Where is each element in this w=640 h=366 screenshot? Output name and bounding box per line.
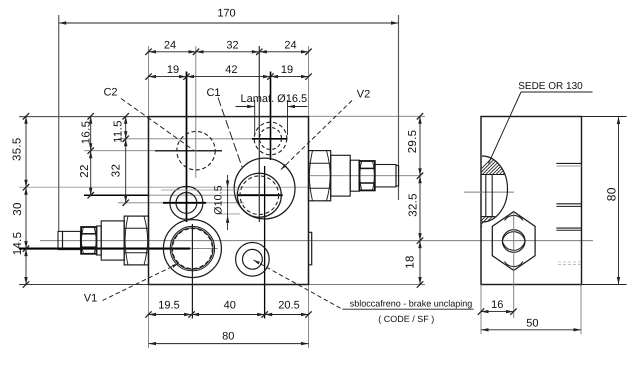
port C1 thread dashed circle: [240, 176, 279, 215]
centerline V2 cartridge y175: [309, 175, 420, 177]
dimension lamature line right: [288, 106, 308, 108]
svg-text:32: 32: [226, 40, 238, 52]
port V1 inner circle: [172, 228, 213, 269]
svg-text:11.5: 11.5: [113, 120, 125, 143]
hex chamfer dome bottom: [502, 241, 525, 250]
svg-text:24: 24: [284, 40, 296, 52]
svg-text:V2: V2: [357, 89, 370, 101]
small hex chamfer right: [94, 227, 96, 254]
right fitting big hex: [309, 151, 331, 201]
port B hole circle: [176, 193, 197, 214]
svg-text:16.5: 16.5: [81, 121, 93, 145]
svg-text:Lamat. Ø16.5: Lamat. Ø16.5: [241, 93, 308, 105]
svg-text:170: 170: [217, 8, 235, 20]
seat groove top line: [482, 174, 505, 176]
extension lamature left: [254, 100, 256, 135]
dimension row 19-42-19: [149, 76, 309, 78]
extension line top-right: [309, 115, 426, 117]
extension side left down: [480, 285, 482, 335]
dimension 16 line: [481, 311, 514, 313]
leader C1: [218, 98, 242, 168]
centerline C2 dark arm: [155, 150, 222, 152]
dimension chain 35.5-30-14.5: [25, 116, 27, 284]
hex plug inner circle: [502, 230, 525, 253]
port V1 outer circle: [163, 220, 221, 278]
groove wall line: [485, 175, 487, 217]
port V2 counterbore dashed circle: [254, 122, 287, 155]
svg-text:19: 19: [167, 64, 179, 76]
centerline port B horizontal: [118, 202, 163, 204]
right fitting washer body: [331, 155, 351, 196]
seat groove bottom line: [482, 216, 496, 218]
centerline C1 vertical: [264, 166, 266, 319]
leader V1: [103, 264, 179, 301]
port B counterbore circle: [170, 186, 203, 219]
port depth line 1: [556, 162, 581, 164]
port C2 dashed circle: [177, 132, 215, 170]
svg-text:14.5: 14.5: [12, 232, 24, 256]
leader underline SEDE OR: [521, 91, 593, 93]
right big hex chamfer right: [327, 151, 331, 201]
left fitting washer body: [101, 221, 124, 260]
hex plug side view: [492, 212, 535, 271]
cavity large circle: [234, 158, 295, 219]
extension diameter 10.5 bottom: [218, 213, 240, 215]
port depth line 3: [556, 227, 581, 229]
centerline V1 dark arm: [19, 248, 190, 250]
svg-text:C2: C2: [103, 87, 117, 99]
svg-text:( CODE / SF ): ( CODE / SF ): [378, 314, 434, 324]
svg-text:80: 80: [222, 331, 234, 343]
svg-text:19.5: 19.5: [158, 300, 179, 312]
port depth hidden line: [558, 261, 581, 263]
extension 80 bottom: [582, 284, 627, 286]
centerline C2 vertical: [195, 46, 197, 178]
dimension chain 29.5-32.5-18: [419, 116, 421, 284]
big hex chamfer arc right: [144, 216, 148, 265]
svg-text:SEDE OR 130: SEDE OR 130: [518, 81, 583, 92]
leader SEDE OR diagonal: [489, 92, 522, 164]
left fitting end cap: [58, 231, 63, 249]
side view block outline: [481, 117, 582, 285]
port V1 thread dashed circle: [173, 229, 213, 269]
right fitting neck: [350, 160, 359, 191]
svg-text:19: 19: [281, 64, 293, 76]
port C1 outer circle: [237, 173, 281, 217]
svg-text:V1: V1: [84, 293, 97, 305]
right small hex chamfer r: [372, 161, 374, 190]
dimension 50 line: [481, 329, 581, 331]
side view seat arc: [482, 156, 508, 222]
extension left edge up: [148, 46, 150, 116]
svg-text:40: 40: [224, 300, 236, 312]
centerline V1 gray: [190, 248, 218, 250]
extension 80 top: [582, 116, 627, 118]
dimension row 19.5-40-20.5: [149, 314, 309, 316]
svg-text:22: 22: [79, 164, 91, 177]
centerline port B dark arm: [163, 202, 206, 204]
left fitting small hex: [81, 227, 96, 254]
centerline V2 vertical: [270, 72, 272, 161]
svg-text:29.5: 29.5: [407, 130, 419, 154]
dimension chain 16.5-22: [90, 116, 92, 195]
hex vertex chamfer top: [505, 215, 524, 220]
main horizontal centerline y240: [40, 240, 593, 242]
leader C2: [121, 99, 194, 151]
left fitting neck: [97, 226, 102, 255]
right big hex chamfer left: [309, 151, 312, 201]
vertical line x259: [258, 46, 260, 222]
port V2 hole dashed circle: [260, 128, 282, 150]
centerline port B vertical: [186, 72, 188, 223]
dimension 80 line: [149, 343, 309, 345]
leader underline brake release: [342, 308, 473, 310]
svg-text:32.5: 32.5: [408, 193, 420, 217]
extension lamature right: [287, 100, 289, 135]
centerline C1 dark arm: [237, 194, 283, 196]
dimension 170 line: [59, 22, 399, 24]
centerline V2 dark arm: [252, 138, 288, 140]
left fitting stem cylinder: [63, 231, 81, 249]
hex vertex chamfer bottom: [505, 262, 524, 267]
extension right edge down: [308, 285, 310, 349]
dimension diameter 10.5 line: [227, 175, 229, 230]
port S hole circle: [243, 249, 263, 269]
dimension row 24-32-24: [149, 51, 309, 53]
svg-text:32: 32: [111, 164, 123, 177]
hex plug vertical centerline: [513, 212, 515, 318]
svg-text:20.5: 20.5: [278, 300, 299, 312]
right fitting end cap: [396, 166, 399, 186]
svg-text:30: 30: [12, 202, 24, 215]
extension line 170 left: [58, 15, 60, 231]
hatching O-ring seat lower: [472, 204, 535, 230]
centerline V1 vertical: [191, 224, 193, 319]
left fitting big hex: [124, 216, 148, 265]
main block outline: [149, 117, 309, 285]
dimension lamature line left: [236, 106, 255, 108]
extension line bottom-right: [309, 284, 426, 286]
svg-text:18: 18: [405, 255, 417, 268]
big hex chamfer arc: [125, 216, 128, 265]
extension left edge down: [148, 285, 150, 349]
port depth line 2: [556, 203, 581, 205]
side view seat centerline: [464, 191, 514, 193]
svg-text:16: 16: [491, 299, 503, 311]
hex chamfer dome top: [502, 232, 525, 241]
svg-text:24: 24: [164, 40, 176, 52]
svg-text:50: 50: [526, 318, 538, 330]
extension right edge up: [308, 46, 310, 116]
leader V2: [281, 101, 352, 170]
right small hex chamfer l: [360, 161, 362, 190]
dimension 80 line side: [618, 117, 620, 285]
svg-text:Ø10.5: Ø10.5: [213, 185, 225, 215]
centerline C1 horizontal: [148, 194, 237, 196]
svg-text:80: 80: [605, 187, 619, 201]
extension line 170 right: [398, 15, 400, 200]
leader brake release port: [254, 260, 343, 309]
extension line bottom-left: [19, 284, 149, 286]
extension diameter 10.5 top: [161, 189, 240, 191]
extension line top-left: [19, 116, 149, 118]
port V1 seat circle: [170, 226, 214, 270]
hatching O-ring seat upper: [470, 150, 565, 180]
small hex chamfer left: [81, 227, 83, 254]
extension side right down: [580, 285, 582, 335]
centerline cavity horizontal y187: [19, 186, 309, 188]
svg-text:sbloccafreno - brake unclaping: sbloccafreno - brake unclaping: [350, 299, 473, 309]
centerline C2 horizontal: [84, 150, 155, 152]
svg-text:42: 42: [225, 64, 237, 76]
groove wall line 2: [491, 175, 493, 217]
svg-text:35.5: 35.5: [12, 137, 24, 161]
dimension chain 11.5-32: [125, 116, 127, 203]
right fitting small hex: [359, 161, 374, 190]
centerline V2 horizontal: [118, 138, 252, 140]
tab on right edge: [309, 232, 312, 264]
port S counterbore circle: [236, 242, 270, 276]
tick line y195 left: [84, 194, 148, 196]
svg-text:C1: C1: [206, 87, 220, 99]
right fitting threaded cylinder: [375, 165, 396, 187]
